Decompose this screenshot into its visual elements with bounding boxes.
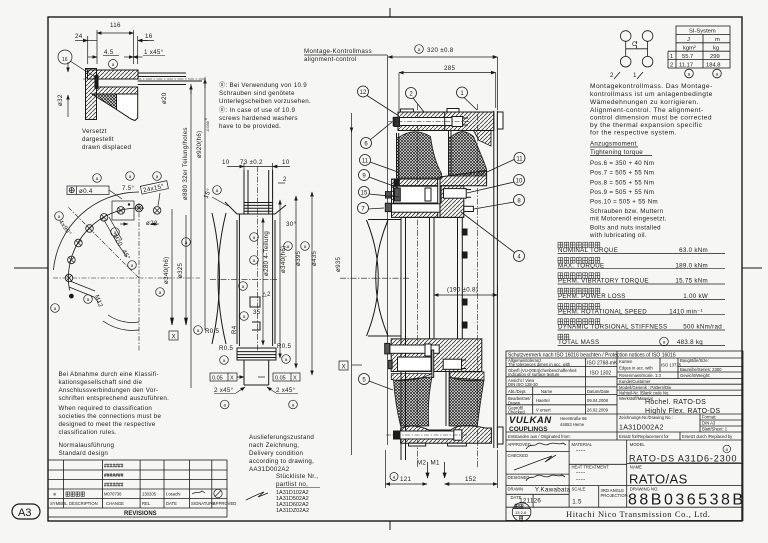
svg-text:4.5: 4.5 [104,49,114,56]
svg-text:#######: ####### [104,473,124,479]
svg-text:ø280 4-Teilung: ø280 4-Teilung [263,231,270,276]
svg-text:VULKAN: VULKAN [509,415,552,426]
svg-text:Datum/Date: Datum/Date [587,389,610,394]
svg-text:Highly Flex. RATO-DS: Highly Flex. RATO-DS [645,408,720,415]
svg-text:X: X [230,376,234,382]
svg-text:(190 ±0.8): (190 ±0.8) [447,287,478,294]
svg-text:11: 11 [362,159,369,165]
svg-text:Tightening torque: Tightening torque [590,149,643,156]
svg-text:Bei Abnahme durch eine Klassif: Bei Abnahme durch eine Klassifi- [59,371,159,378]
svg-text:X: X [172,334,176,341]
svg-text:Hochel. RATO-DS: Hochel. RATO-DS [645,399,706,406]
svg-text:Kunde/Customer: Kunde/Customer [619,379,651,384]
svg-text:X: X [293,376,297,382]
svg-text:REVISIONS: REVISIONS [124,511,157,517]
svg-text:1A31DZ02A2: 1A31DZ02A2 [276,508,309,514]
svg-text:screws hardened washers: screws hardened washers [219,115,298,122]
svg-text:have to be provided.: have to be provided. [219,123,281,130]
svg-text:15: 15 [361,191,368,197]
svg-text:classification rules.: classification rules. [59,429,117,436]
svg-text:Pos.9 = 505 + 55 Nm: Pos.9 = 505 + 55 Nm [590,189,654,196]
svg-text:Name: Name [541,389,553,394]
svg-text:TOTAL MASS: TOTAL MASS [558,339,599,346]
svg-text:DATE: DATE [166,501,177,506]
svg-text:121126: 121126 [519,498,541,505]
svg-text:Y.Kawabata: Y.Kawabata [535,487,571,494]
svg-text:Schrauben bzw. Muttern: Schrauben bzw. Muttern [590,208,664,215]
svg-text:with lubricating oil.: with lubricating oil. [589,232,647,239]
svg-text:NAME: NAME [630,465,642,470]
svg-text:26.02.2009: 26.02.2009 [587,408,609,413]
svg-text:Gewicht/Weight:: Gewicht/Weight: [680,373,710,378]
svg-text:Baugräße/Size:: Baugräße/Size: [680,358,709,363]
svg-text:130205: 130205 [142,492,157,497]
svg-text:ø0.4: ø0.4 [79,188,93,195]
svg-text:△2: △2 [262,291,271,298]
svg-text:DIN A3: DIN A3 [702,421,716,426]
svg-text:Checked: Checked [508,409,525,414]
svg-text:Nahteil-Nr. /Blank code No.: Nahteil-Nr. /Blank code No. [619,391,670,396]
svg-text:ISO 13715: ISO 13715 [661,363,682,368]
svg-text:DYNAMIC TORSIONAL STIFFNESS: DYNAMIC TORSIONAL STIFFNESS [558,324,667,331]
svg-text:0.05: 0.05 [212,376,223,382]
svg-text:2: 2 [670,62,673,68]
svg-text:Delivery condition: Delivery condition [249,450,303,457]
svg-text:SIGNATURE: SIGNATURE [191,501,215,506]
svg-text:299: 299 [710,54,720,60]
svg-text:----: ---- [576,476,585,483]
svg-text:kontrollmass ist um anlagenbed: kontrollmass ist um anlagenbedingte [590,91,713,98]
svg-text:-0.036: -0.036 [206,121,210,132]
svg-text:Ersetzt durch /Replaced by: Ersetzt durch /Replaced by [682,434,733,439]
svg-text:0: 0 [204,118,208,120]
svg-text:When required to classificatio: When required to classification [59,405,153,412]
svg-text:PERM. VIBRATORY TORQUE: PERM. VIBRATORY TORQUE [558,278,649,285]
svg-text:for the respective system.: for the respective system. [590,130,677,137]
svg-text:12: 12 [360,90,367,96]
svg-text:mit Motorenöl eingesetzt.: mit Motorenöl eingesetzt. [590,216,667,223]
svg-text:DRAWN: DRAWN [508,487,524,492]
svg-text:drawn displaced: drawn displaced [82,144,131,151]
svg-text:285: 285 [444,65,455,72]
svg-text:1.00 kW: 1.00 kW [683,293,708,300]
svg-text:M1: M1 [431,460,440,467]
svg-text:R0.5: R0.5 [205,328,220,335]
svg-text:10: 10 [222,159,230,166]
svg-text:control dimension must be corr: control dimension must be corrected [590,115,712,122]
svg-text:16: 16 [62,57,68,63]
svg-text:#######: ####### [104,464,124,470]
svg-text:Haertel: Haertel [536,398,550,403]
svg-text:Versetzt: Versetzt [82,128,107,135]
svg-text:X: X [342,364,346,371]
svg-text:Ersatz für/Replacement for: Ersatz für/Replacement for [619,434,669,439]
svg-text:Hitachi Nico Transmission Co.,: Hitachi Nico Transmission Co., Ltd. [566,509,711,519]
svg-text:Heerstraße 66: Heerstraße 66 [560,416,587,421]
svg-text:designed to meet the respectiv: designed to meet the respective [59,421,156,428]
svg-text:Pos.7 = 505 + 55 Nm: Pos.7 = 505 + 55 Nm [590,170,654,177]
svg-text:t.osachi: t.osachi [166,492,181,497]
svg-text:DIN ISO 128-30: DIN ISO 128-30 [508,382,538,387]
svg-text:Wämedehnungen zu korrigieren.: Wämedehnungen zu korrigieren. [590,99,699,106]
svg-text:1.5: 1.5 [572,499,582,506]
svg-text:Ⓧ: In case of use of 10.9: Ⓧ: In case of use of 10.9 [219,106,296,114]
svg-text:ø935: ø935 [335,256,342,272]
svg-text:ø435: ø435 [311,250,318,266]
svg-text:15.75 kNm: 15.75 kNm [675,278,708,285]
svg-text:----: ---- [576,447,585,454]
svg-text:Standard design: Standard design [59,450,109,457]
svg-text:ISO 1302: ISO 1302 [590,371,611,377]
svg-text:ISO 2768-mK: ISO 2768-mK [587,361,618,367]
svg-text:500 kNm/rad: 500 kNm/rad [683,324,722,331]
svg-text:73 ±0.2: 73 ±0.2 [240,159,263,166]
svg-text:SI-System: SI-System [689,29,716,35]
svg-text:1410 min⁻¹: 1410 min⁻¹ [669,308,703,315]
svg-text:dargestellt: dargestellt [82,136,114,143]
svg-text:2: 2 [610,72,614,79]
svg-text:societies the connections must: societies the connections must be [59,413,162,420]
svg-text:C: C [632,41,637,48]
svg-text:NOMINAL TORQUE: NOMINAL TORQUE [558,247,618,254]
svg-text:1 x45°: 1 x45° [144,49,164,56]
svg-text:ø395: ø395 [295,250,302,266]
svg-text:R0.5: R0.5 [219,345,234,352]
svg-text:RATO-DS A31D6-2300: RATO-DS A31D6-2300 [629,454,737,464]
svg-text:Auslieferungszustand: Auslieferungszustand [249,434,314,441]
svg-text:152: 152 [465,476,476,483]
svg-text:kationsgesellschaft sind die: kationsgesellschaft sind die [59,379,143,386]
svg-text:PROJECTION: PROJECTION [601,493,628,498]
svg-text:partlist no,: partlist no, [276,481,308,488]
svg-text:Stückliste Nr.,: Stückliste Nr., [276,473,318,480]
svg-text:30°: 30° [286,221,296,228]
svg-text:J: J [687,37,690,43]
svg-text:#######: ####### [104,483,124,489]
svg-text:MAX. TORQUE: MAX. TORQUE [558,262,604,269]
svg-text:Pos.10 = 505 + 55 Nm: Pos.10 = 505 + 55 Nm [590,199,658,206]
svg-text:schriften entsprechend auszufü: schriften entsprechend auszuführen. [59,395,170,402]
svg-text:16: 16 [145,33,153,40]
svg-text:Normalausführung: Normalausführung [59,442,115,449]
svg-text:alignment-control: alignment-control [304,56,357,63]
svg-text:Abt./Dept.: Abt./Dept. [508,389,527,394]
svg-text:The tolerances dimen in acc. w: The tolerances dimen in acc. with [508,362,571,367]
svg-text:PERM. ROTATIONAL SPEED: PERM. ROTATIONAL SPEED [558,308,647,315]
svg-text:ø325: ø325 [177,262,184,278]
svg-text:CHANGE: CHANGE [106,501,124,506]
svg-text:ø20: ø20 [161,92,168,104]
svg-text:184.8: 184.8 [706,62,721,68]
svg-text:CHECKED: CHECKED [508,453,528,458]
svg-text:ø22: ø22 [146,220,158,227]
svg-text:Ⓧ: Bei Verwendung von 10.9: Ⓧ: Bei Verwendung von 10.9 [219,81,307,89]
svg-text:0.05: 0.05 [275,376,286,382]
svg-text:Pos.6 = 350 + 40 Nm: Pos.6 = 350 + 40 Nm [590,160,654,167]
svg-text:1: 1 [633,72,637,79]
svg-text:Unterlegscheiben vorzusehen.: Unterlegscheiben vorzusehen. [219,98,311,105]
svg-text:Modell/Gesenk : Pattern/Die: Modell/Gesenk : Pattern/Die [619,385,672,390]
svg-text:11.17: 11.17 [679,62,693,68]
svg-text:M2: M2 [417,460,426,467]
svg-text:----: ---- [576,469,585,476]
svg-text:DESIGNED: DESIGNED [508,475,530,480]
svg-text:35: 35 [253,309,261,316]
svg-text:Entstanden aus / Originated fr: Entstanden aus / Originated from: [508,434,571,439]
svg-text:Format:: Format: [702,415,716,420]
svg-text:Blatt/Sheet: 1: Blatt/Sheet: 1 [702,427,728,432]
svg-text:AA31D002A2: AA31D002A2 [249,466,290,473]
svg-text:11: 11 [516,157,523,163]
svg-text:10: 10 [516,179,523,185]
svg-text:Kanten: Kanten [619,359,633,364]
svg-text:Pos.8 = 505 + 55 Nm: Pos.8 = 505 + 55 Nm [590,179,654,186]
svg-text:121: 121 [400,476,411,483]
svg-text:Indication of surface texture: Indication of surface texture [508,372,560,377]
svg-text:10: 10 [282,159,290,166]
svg-text:63.0 kNm: 63.0 kNm [679,247,708,254]
svg-text:2 x45°: 2 x45° [214,387,234,394]
svg-text:SCALE: SCALE [572,487,586,492]
svg-text:Edges in acc. with: Edges in acc. with [619,366,653,371]
svg-text:APPROVED: APPROVED [508,442,531,447]
svg-text:7.5°: 7.5° [122,185,135,192]
svg-text:Montagekontrollmass. Das Monta: Montagekontrollmass. Das Montage- [590,83,713,90]
svg-text:m: m [715,37,720,43]
svg-text:2: 2 [283,176,287,183]
svg-text:24: 24 [75,33,83,40]
svg-text:44653 Herne: 44653 Herne [560,422,585,427]
svg-text:Montage-Kontrollmass: Montage-Kontrollmass [304,48,372,55]
svg-text:ø920(h6): ø920(h6) [196,130,203,158]
svg-text:kgm²: kgm² [683,46,696,52]
svg-text:88B036538B: 88B036538B [628,492,746,509]
svg-text:Alignment-control. The alignme: Alignment-control. The alignment- [590,107,704,114]
svg-text:116: 116 [110,22,121,29]
svg-text:483.8 kg: 483.8 kg [677,339,703,346]
svg-text:APPROVED: APPROVED [213,501,236,506]
svg-text:Anzugsmoment: Anzugsmoment [590,141,637,148]
svg-text:according to drawing,: according to drawing, [249,458,314,465]
svg-text:320 ±0.8: 320 ±0.8 [427,47,454,54]
svg-text:Rosenmass/Scale. 1:3: Rosenmass/Scale. 1:3 [619,373,662,378]
svg-text:ø880 32er Teilung/holes: ø880 32er Teilung/holes [182,127,189,200]
svg-text:A3: A3 [18,507,31,519]
svg-text:RATO/AS: RATO/AS [629,472,688,487]
svg-text:Anschlussverbindungen den Vor-: Anschlussverbindungen den Vor- [59,387,159,394]
svg-text:M070736: M070736 [104,492,122,497]
svg-text:R0.5: R0.5 [277,343,292,350]
svg-text:189.0 kNm: 189.0 kNm [675,262,708,269]
svg-text:by the thermal expansion speci: by the thermal expansion specific [590,122,703,129]
svg-text:Zeichnungs-Nr./Drawing No.:: Zeichnungs-Nr./Drawing No.: [619,415,673,420]
svg-text:kg: kg [713,46,719,52]
svg-text:SYMBOL: SYMBOL [50,501,68,506]
svg-text:DESCRIPTION: DESCRIPTION [69,501,98,506]
svg-text:REL: REL [142,501,151,506]
svg-text:09.04.2008: 09.04.2008 [587,398,609,403]
svg-text:nach Zeichnung,: nach Zeichnung, [249,442,299,449]
svg-text:COUPLINGS: COUPLINGS [509,426,548,433]
svg-text:V ersert: V ersert [536,408,551,413]
svg-text:Baureihe/Series: 2300: Baureihe/Series: 2300 [680,367,722,372]
svg-text:1A31D002A2: 1A31D002A2 [619,425,664,432]
svg-text:ø340(h6): ø340(h6) [163,256,170,284]
svg-text:1: 1 [670,54,673,60]
svg-text:ø32: ø32 [57,94,64,106]
svg-text:PERM. POWER LOSS: PERM. POWER LOSS [558,293,626,300]
svg-text:13 2-6: 13 2-6 [515,510,527,515]
svg-text:2 x45°: 2 x45° [276,387,296,394]
svg-text:Schrauben sind genötete: Schrauben sind genötete [219,90,295,97]
svg-text:MODEL: MODEL [630,442,646,447]
svg-text:R4: R4 [231,325,238,334]
svg-text:Bolts and nuts installed: Bolts and nuts installed [590,224,661,231]
svg-text:⊕: ⊕ [53,492,57,497]
svg-text:55.7: 55.7 [682,54,693,60]
